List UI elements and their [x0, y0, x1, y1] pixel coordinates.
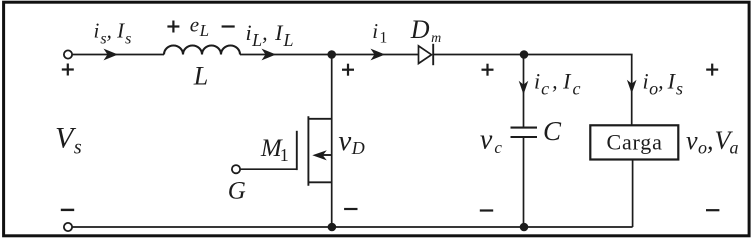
wire: node A to diode anode — [332, 54, 419, 56]
source terminal bottom-left — [64, 223, 72, 231]
bottom junction dot under C — [520, 223, 529, 232]
arrow i_1 — [371, 49, 386, 61]
wire: inductor to node A — [240, 54, 332, 56]
svg-text:L: L — [193, 61, 208, 90]
polarity + right (vo) — [706, 64, 718, 76]
load branch wire lower — [632, 160, 634, 228]
transistor M1 source stub — [308, 181, 332, 183]
polarity + of e_L — [167, 21, 179, 33]
bottom rail wire — [72, 226, 632, 228]
gate terminal G circle — [232, 165, 240, 173]
polarity + (vc) — [482, 64, 494, 76]
wire: top rail from source to inductor — [72, 54, 164, 56]
transistor M1 gate bar — [296, 131, 298, 170]
capacitor C top plate — [511, 127, 538, 129]
wire: gate lead — [240, 168, 297, 170]
wire: node B to load corner — [524, 54, 633, 56]
polarity + left (Vs) — [62, 64, 74, 76]
arrow i_L — [262, 49, 277, 61]
polarity + node A (vD) — [342, 64, 354, 76]
svg-text:C: C — [543, 116, 562, 146]
capacitor branch wire lower — [523, 137, 525, 227]
inductor L — [164, 46, 240, 55]
svg-text:Carga: Carga — [607, 129, 663, 154]
wire: diode cathode to node B — [433, 54, 524, 56]
polarity - left (Vs) — [61, 209, 74, 211]
polarity - (vD) — [344, 208, 357, 210]
node A junction dot — [327, 50, 336, 59]
source terminal top-left — [64, 50, 72, 58]
transistor M1 drain stub — [308, 118, 332, 120]
capacitor branch wire upper — [523, 55, 525, 127]
capacitor C bottom plate — [511, 136, 538, 138]
polarity - of e_L — [222, 25, 235, 27]
load branch wire upper — [631, 55, 633, 126]
node B junction dot — [520, 50, 529, 59]
polarity - right (vo) — [706, 209, 719, 211]
arrow i_c — [519, 81, 529, 95]
polarity - (vc) — [480, 209, 493, 211]
arrow i_s — [104, 49, 119, 61]
svg-text:G: G — [228, 178, 246, 205]
diode D_m — [419, 46, 432, 64]
arrow i_o — [627, 80, 637, 94]
bottom junction dot under M1 — [328, 223, 337, 232]
transistor M1 drain-source vertical wire — [331, 55, 333, 228]
transistor M1 body arrow — [322, 154, 332, 156]
load box Carga — [590, 125, 678, 159]
transistor M1 channel line — [307, 116, 309, 185]
